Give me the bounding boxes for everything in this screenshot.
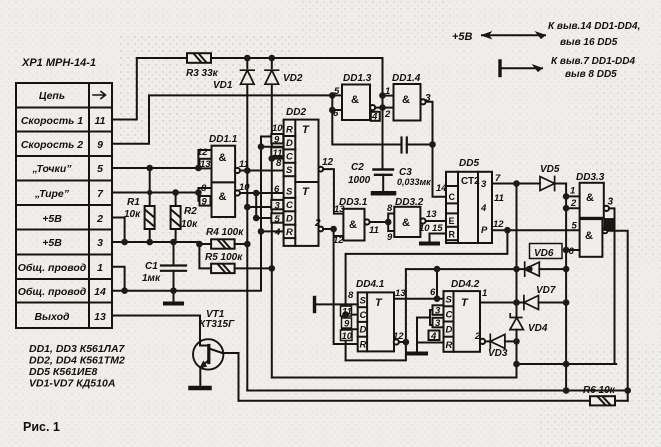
wire stub into DD1.4 pin 1: [383, 95, 394, 97]
wire VD6 line to DD4.2 S6 vertical: [436, 269, 438, 299]
svg-text:8: 8: [276, 158, 282, 169]
svg-text:VD7: VD7: [536, 285, 556, 296]
wire DD4.2 C,D bracket to ground: [417, 310, 444, 352]
svg-text:3: 3: [97, 237, 103, 249]
wire B from DD1.1 out11 bus to wire A: [247, 390, 627, 392]
svg-text:&: &: [402, 217, 410, 229]
svg-text:R6 10к: R6 10к: [583, 385, 616, 396]
diode VD4 zener: [510, 314, 523, 330]
gate DD3.1: [343, 209, 369, 241]
resistor R3 33k: [187, 53, 211, 63]
wire VD5 to DD3.3 rail: [555, 183, 567, 185]
svg-text:выв 16 DD5: выв 16 DD5: [560, 37, 618, 48]
svg-text:3: 3: [608, 197, 614, 208]
svg-text:4: 4: [430, 331, 437, 342]
wire VD2 vertical bus down to wire C: [271, 58, 273, 378]
svg-text:VD4: VD4: [528, 323, 548, 334]
svg-text:C: C: [449, 192, 456, 202]
svg-text:10к: 10к: [124, 209, 141, 220]
svg-text:S: S: [360, 296, 367, 307]
wire P line down to DD4.1 C11: [346, 230, 508, 360]
pin box 5 of DD2: [271, 213, 283, 222]
pin box 11 of DD4.1: [341, 306, 352, 316]
svg-text:СТ2: СТ2: [461, 176, 480, 187]
pin box 3 of DD4.2 D: [433, 318, 444, 328]
wire VD5 rail down with stubs to DD3.3 pins 1,2,6: [566, 184, 580, 391]
gate DD3.3 bottom (&): [580, 219, 608, 257]
counter DD5 CT2: [446, 172, 492, 243]
svg-text:R4 100к: R4 100к: [206, 227, 244, 238]
svg-text:6: 6: [274, 184, 280, 195]
gate DD1.4: [394, 84, 426, 121]
svg-text:VD3: VD3: [488, 348, 508, 359]
wire diode rail VD7 line L2: [539, 302, 567, 304]
svg-text:11: 11: [95, 115, 106, 127]
svg-text:13: 13: [200, 159, 211, 170]
wire DD3.1 out to DD3.2 in8,9: [370, 214, 395, 232]
gate DD3.2: [394, 207, 425, 237]
wire A VT1 collector down to bottom rail: [238, 353, 240, 401]
svg-text:5: 5: [334, 86, 340, 97]
svg-text:VD5: VD5: [540, 164, 560, 175]
svg-text:11: 11: [494, 193, 504, 204]
svg-text:14: 14: [436, 183, 447, 194]
wire DD4.2 out2 to VD3: [485, 340, 490, 342]
svg-text:DD4.1: DD4.1: [356, 279, 385, 290]
svg-text:С2: С2: [351, 162, 364, 173]
wire DD1.1 out10 to DD2 S6: [240, 192, 285, 194]
svg-text:10: 10: [272, 123, 283, 134]
wire DD2 out2 to DD3.1 in12 and down to DD4.1 R: [323, 229, 358, 344]
wire DD2 C11 entry from VD2 bus: [272, 158, 285, 160]
svg-text:13: 13: [94, 311, 106, 323]
wire diode rail VD6 line L1: [406, 268, 566, 270]
capacitor C2 1000: [374, 170, 394, 192]
svg-text:2: 2: [570, 198, 577, 209]
svg-text:10: 10: [342, 331, 353, 342]
wire DD5 R15 to ground: [430, 234, 447, 243]
resistor R6 10k: [239, 396, 628, 405]
connector XP1 MPH-14-1 table: [16, 83, 112, 328]
capacitor C3 0.033mk: [402, 138, 433, 153]
wire terminal to S8: [316, 303, 358, 305]
gate DD1.3: [342, 85, 375, 121]
svg-text:Цепь: Цепь: [39, 90, 65, 102]
svg-text:1: 1: [482, 288, 487, 299]
svg-text:C: C: [286, 200, 293, 211]
ground under C2: [373, 191, 394, 196]
wire DD5 out7 to VD5: [492, 183, 540, 185]
ground under DD4.2: [408, 352, 426, 356]
svg-text:VD6: VD6: [534, 248, 554, 259]
wire ground rail pin14 up to DD2 R,D: [112, 137, 285, 291]
pin box 4 of DD4.2 R: [429, 331, 440, 341]
flip-flop DD4.2: [444, 291, 486, 352]
legend +5V double arrow: [482, 32, 545, 38]
svg-text:E: E: [449, 216, 455, 226]
svg-text:выв 8 DD5: выв 8 DD5: [565, 69, 617, 80]
svg-text:&: &: [586, 192, 594, 204]
svg-text:К выв.7 DD1-DD4: К выв.7 DD1-DD4: [551, 56, 635, 67]
svg-text:3: 3: [425, 93, 431, 104]
svg-text:+5В: +5В: [42, 213, 62, 225]
gate DD1.1 bottom (&): [212, 182, 240, 217]
svg-text:Скорость 1: Скорость 1: [21, 115, 83, 127]
svg-text:Общ. провод: Общ. провод: [18, 262, 87, 274]
svg-text:4: 4: [274, 227, 281, 238]
svg-text:S: S: [286, 165, 293, 176]
pin box 3 of DD4.2 C: [433, 305, 444, 315]
wire DD2 bottom C5 stub: [247, 206, 285, 208]
svg-text:DD5 К561ИЕ8: DD5 К561ИЕ8: [29, 366, 97, 378]
svg-text:9: 9: [387, 232, 393, 243]
gate DD1.1 top (&): [212, 146, 240, 183]
svg-text:2: 2: [96, 213, 103, 225]
wire DD4.1 out12 down loop to C input vertical: [346, 342, 406, 360]
svg-text:DD1.1: DD1.1: [209, 134, 238, 145]
svg-text:11: 11: [239, 159, 249, 170]
svg-text:13: 13: [334, 204, 345, 215]
wire +5V pin2 bracket down to pin3 rail: [112, 218, 125, 243]
gate & symbols: [219, 94, 595, 242]
wire DD4.2 out1 to VD7: [480, 302, 524, 304]
svg-text:DD1.3: DD1.3: [343, 73, 372, 84]
wire DD4.1 out13 to DD4.2 S6: [394, 298, 444, 300]
svg-text:8: 8: [348, 290, 354, 301]
svg-text:D: D: [446, 325, 453, 336]
wire C right end up to node: [272, 377, 517, 379]
svg-text:5: 5: [572, 221, 578, 232]
svg-text:VD1-VD7 КД510А: VD1-VD7 КД510А: [29, 378, 115, 390]
svg-text:3: 3: [435, 306, 441, 317]
svg-text:R: R: [449, 230, 456, 240]
wire ground pin1 bracket down to pin14: [112, 267, 125, 291]
svg-text:&: &: [349, 219, 357, 231]
capacitor C1 1mk: [161, 242, 186, 303]
svg-text:R: R: [286, 125, 293, 136]
svg-text:К выв.14 DD1-DD4,: К выв.14 DD1-DD4,: [548, 21, 640, 32]
svg-text:+5В: +5В: [452, 31, 473, 43]
ground under C1: [165, 302, 182, 306]
svg-text:5: 5: [275, 214, 281, 225]
svg-text:6: 6: [333, 108, 339, 119]
diode VD5: [540, 177, 555, 191]
svg-text:Рис. 1: Рис. 1: [23, 420, 60, 434]
svg-text:&: &: [219, 152, 227, 164]
wire DD1.3 input ties 5-6 and to C3: [332, 95, 401, 144]
svg-text:1: 1: [97, 262, 103, 274]
svg-text:R2: R2: [184, 206, 197, 217]
svg-text:13: 13: [395, 288, 406, 299]
svg-text:4: 4: [480, 203, 487, 214]
wire VD1 vertical bus down to wire B: [246, 58, 248, 391]
resistor R4 100k: [211, 239, 247, 248]
svg-text:12: 12: [322, 157, 334, 168]
wire DD3.2 out to DD5 E13: [426, 220, 446, 222]
svg-text:S: S: [446, 295, 453, 306]
pin box 9 of DD1.1: [200, 196, 211, 206]
wire +5V rail pin3: [112, 242, 211, 268]
ground under DD5 R: [421, 242, 438, 246]
wire DD1.3 out to DD1.4 pin2: [375, 107, 393, 109]
svg-text:12: 12: [197, 147, 208, 158]
svg-text:8: 8: [201, 183, 207, 194]
wire Точки pin5 to DD1.1 pins 12,13: [112, 150, 212, 168]
svg-text:1: 1: [570, 186, 575, 197]
DD internal letters: [286, 124, 469, 351]
wire DD2 out12 to DD3.1 in13: [323, 169, 343, 214]
wire Скорость2 pin9 to DD1.3 inputs: [112, 95, 332, 143]
diode VD1: [241, 70, 255, 84]
svg-text:7: 7: [495, 173, 501, 184]
svg-text:R: R: [360, 340, 367, 351]
svg-text:C: C: [286, 152, 293, 163]
svg-text:&: &: [402, 94, 410, 106]
svg-text:2: 2: [314, 218, 321, 229]
svg-text:12: 12: [493, 219, 504, 230]
svg-text:VD2: VD2: [283, 73, 303, 84]
transistor VT1 KT315G: [193, 339, 239, 386]
svg-text:R1: R1: [127, 197, 140, 208]
svg-text:R5 100к: R5 100к: [205, 252, 243, 263]
svg-text:4: 4: [605, 221, 612, 232]
svg-text:ХР1 МРН-14-1: ХР1 МРН-14-1: [21, 57, 96, 69]
wire VD3 to VD4 node: [505, 340, 517, 342]
svg-text:13: 13: [426, 209, 437, 220]
ground under VT1 emitter: [191, 386, 210, 391]
svg-text:3: 3: [275, 201, 281, 212]
svg-text:2: 2: [384, 109, 391, 120]
svg-text:2: 2: [474, 331, 481, 342]
svg-text:9: 9: [97, 139, 103, 151]
svg-text:6: 6: [569, 246, 575, 257]
wire DD5 P12 to DD3.3 pin5: [492, 229, 580, 231]
svg-text:&: &: [585, 230, 593, 242]
svg-text:5: 5: [97, 163, 103, 175]
svg-text:12: 12: [333, 235, 344, 246]
flip-flop DD2: [284, 120, 324, 246]
resistor R1 10k: [145, 168, 155, 242]
wire R3 to DD1.4 pin1 and down to C2: [211, 58, 383, 170]
svg-text:R3 33к: R3 33к: [186, 68, 219, 79]
resistor R5 100k: [211, 264, 272, 273]
svg-text:&: &: [219, 191, 227, 203]
wire DD1.4 out3 down to C3 right and DD5 C14: [426, 102, 446, 197]
svg-text:DD4.2: DD4.2: [451, 279, 480, 290]
svg-text:С1: С1: [145, 261, 158, 272]
svg-text:11: 11: [342, 307, 352, 318]
wire DD4.1 out12 up to VD6 line: [399, 269, 406, 342]
svg-text:10к: 10к: [181, 219, 198, 230]
terminal bar to DD4.1 S8: [313, 298, 316, 312]
svg-text:DD5: DD5: [459, 158, 479, 169]
svg-text:D: D: [286, 214, 293, 225]
diode VD3: [490, 334, 505, 348]
svg-text:12: 12: [393, 331, 404, 342]
svg-text:DD2, DD4 К561ТМ2: DD2, DD4 К561ТМ2: [29, 355, 125, 367]
wire DD1.1 out11 to DD2 S8: [240, 170, 285, 172]
svg-text:+5В: +5В: [42, 237, 62, 249]
svg-text:VD1: VD1: [213, 80, 233, 91]
svg-text:C: C: [360, 310, 367, 321]
svg-text:9: 9: [274, 135, 280, 146]
svg-text:1мк: 1мк: [142, 273, 161, 284]
svg-text:R: R: [286, 227, 293, 238]
svg-text:P: P: [481, 225, 488, 236]
gate DD3.3 top (&): [580, 183, 609, 218]
svg-text:3: 3: [435, 318, 441, 329]
svg-text:0,033мк: 0,033мк: [397, 177, 431, 187]
svg-text:DD3.2: DD3.2: [395, 197, 424, 208]
diode VD6: [525, 262, 540, 276]
wire Скорость1 pin11 up to R3 line: [112, 58, 187, 120]
svg-text:DD3.3: DD3.3: [576, 172, 605, 183]
svg-text:14: 14: [94, 286, 106, 298]
box around VD6 label: [530, 244, 563, 259]
wire DD3.3 out3 down to node line y364: [609, 208, 615, 364]
pin box 11 of DD2: [271, 147, 283, 156]
svg-text:6: 6: [430, 287, 436, 298]
diode VD2: [265, 70, 279, 84]
legend common-wire bar symbol: [500, 61, 542, 76]
wire Выход pin13 to VT1 base: [112, 316, 200, 346]
svg-text:1000: 1000: [348, 175, 371, 186]
svg-text:4: 4: [371, 112, 378, 123]
svg-text:C: C: [446, 310, 453, 321]
svg-text:9: 9: [344, 319, 350, 330]
wire DD3.3 out4 to R6 vertical (wire A right): [608, 231, 628, 401]
header arrow: [93, 92, 106, 99]
wire DD4.1 D9 tie to C: [342, 315, 358, 330]
svg-text:15: 15: [432, 223, 443, 234]
wire DD2 bottom D3 from out10 line: [256, 193, 285, 218]
table row texts: [18, 90, 106, 323]
svg-text:D: D: [360, 325, 367, 336]
wire Тире pin7 to DD1.1 pins 8,9: [112, 188, 212, 201]
svg-text:3: 3: [481, 179, 487, 190]
svg-text:Скорость 2: Скорость 2: [21, 139, 83, 151]
pin box 4 of DD3.3 output (filled): [605, 219, 614, 230]
svg-text:8: 8: [387, 203, 393, 214]
svg-text:9: 9: [202, 197, 208, 208]
svg-text:КТ315Г: КТ315Г: [199, 319, 235, 330]
flip-flop DD4.1: [358, 292, 399, 351]
svg-text:DD1.4: DD1.4: [392, 73, 421, 84]
pin box 9 of DD4.1: [342, 318, 352, 328]
diode VD7: [524, 296, 539, 310]
svg-text:1: 1: [385, 86, 390, 97]
wire node y364 to VD3 node: [517, 363, 617, 365]
pin box 10 of DD4.1: [341, 330, 353, 341]
svg-text:S: S: [286, 187, 293, 198]
svg-text:&: &: [351, 94, 359, 106]
svg-text:R: R: [446, 340, 453, 351]
svg-text:11: 11: [369, 225, 379, 236]
resistor R2 10k: [171, 193, 181, 243]
svg-text:10: 10: [239, 182, 250, 193]
pin box 3 of DD2: [271, 200, 283, 209]
pin box 4 of DD1.3 output: [371, 112, 380, 121]
svg-text:10: 10: [419, 223, 430, 234]
svg-text:DD2: DD2: [286, 107, 306, 118]
svg-text:Общ. провод: Общ. провод: [18, 286, 87, 298]
pin box 13 of DD1.1: [200, 159, 212, 169]
svg-text:Выход: Выход: [34, 311, 70, 323]
svg-text:D: D: [286, 138, 293, 149]
pin box 9 of DD2: [271, 134, 283, 143]
svg-text:„Тире”: „Тире”: [34, 188, 70, 200]
wire DD5out7 bus down through VD4 to VD3 node: [516, 184, 518, 378]
svg-text:DD1, DD3 К561ЛА7: DD1, DD3 К561ЛА7: [29, 343, 126, 355]
svg-text:„Точки”: „Точки”: [31, 163, 72, 175]
